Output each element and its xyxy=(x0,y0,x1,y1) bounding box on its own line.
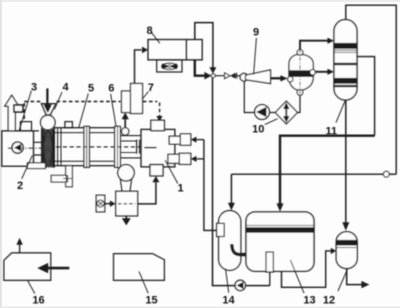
svg-text:10: 10 xyxy=(252,124,264,136)
svg-text:16: 16 xyxy=(32,295,44,307)
svg-text:4: 4 xyxy=(62,82,69,94)
svg-text:12: 12 xyxy=(323,295,335,307)
svg-text:14: 14 xyxy=(222,295,235,307)
svg-text:1: 1 xyxy=(177,183,183,195)
svg-text:5: 5 xyxy=(88,82,94,94)
svg-text:9: 9 xyxy=(253,27,259,39)
svg-text:2: 2 xyxy=(17,180,23,192)
svg-text:13: 13 xyxy=(303,295,315,307)
svg-text:3: 3 xyxy=(31,82,37,94)
svg-text:11: 11 xyxy=(325,126,337,138)
svg-text:15: 15 xyxy=(145,295,157,307)
svg-text:7: 7 xyxy=(148,82,154,94)
svg-text:8: 8 xyxy=(146,25,152,37)
svg-text:6: 6 xyxy=(108,83,114,95)
